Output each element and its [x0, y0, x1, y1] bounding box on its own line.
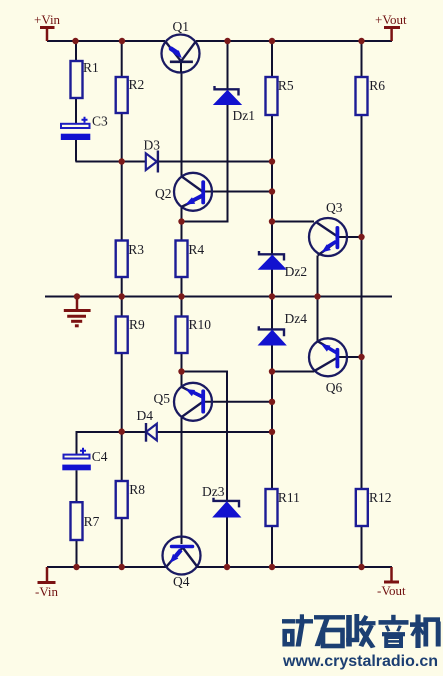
resistor R1: [71, 60, 99, 98]
wire Dz3 column: [182, 372, 228, 568]
svg-text:Q3: Q3: [326, 200, 343, 215]
svg-text:Q6: Q6: [326, 380, 343, 395]
node -Vout terminal: [377, 567, 406, 598]
wire Q6 base lead: [339, 356, 362, 358]
capacitor C3: [61, 114, 108, 141]
resistor R10: [176, 317, 212, 354]
svg-text:+Vin: +Vin: [34, 12, 61, 27]
diode D3: [144, 138, 161, 173]
zener Dz1: [214, 86, 255, 123]
resistor R2: [116, 77, 145, 113]
transistor Q4: [163, 537, 201, 590]
resistor R7: [71, 502, 100, 540]
node -Vin terminal: [35, 567, 59, 599]
svg-text:C3: C3: [92, 114, 108, 129]
ground: [64, 297, 91, 326]
svg-text:Q5: Q5: [154, 391, 171, 406]
wire top rail left: [47, 40, 165, 42]
wire bottom rail right: [197, 566, 392, 568]
resistor R8: [116, 481, 146, 518]
svg-text:Dz3: Dz3: [202, 484, 225, 499]
watermark chinese ji: [410, 615, 441, 649]
svg-text:R10: R10: [189, 317, 212, 332]
resistor R5: [266, 77, 294, 115]
transistor Q3: [309, 200, 347, 256]
transistor Q6: [309, 338, 347, 395]
svg-text:R5: R5: [278, 78, 294, 93]
svg-text:D3: D3: [144, 138, 161, 153]
wire Dz1 column: [182, 41, 228, 222]
wire col D segments: [181, 73, 183, 538]
svg-text:R2: R2: [129, 77, 145, 92]
svg-text:R9: R9: [129, 317, 145, 332]
svg-text:Dz2: Dz2: [285, 264, 308, 279]
watermark chinese shi: [314, 615, 345, 646]
svg-text:Dz1: Dz1: [233, 108, 256, 123]
wire col B segments: [75, 41, 77, 162]
svg-text:R11: R11: [278, 490, 300, 505]
zener Dz3: [202, 484, 240, 517]
node dots mid rail: [74, 293, 321, 299]
wire bottom rail left: [47, 566, 167, 568]
node +Vin terminal: [34, 12, 61, 41]
wire Q3 base lead: [339, 236, 362, 238]
wire D3 row: [76, 161, 273, 163]
watermark chinese shou: [346, 614, 375, 648]
watermark chinese yin: [379, 615, 409, 646]
svg-text:-Vout: -Vout: [377, 583, 406, 598]
svg-text:R3: R3: [128, 242, 144, 257]
svg-text:R8: R8: [129, 482, 145, 497]
wire top rail right: [196, 40, 392, 42]
node dots inner: [119, 158, 365, 435]
svg-text:Dz4: Dz4: [285, 311, 308, 326]
zener Dz2: [259, 251, 307, 279]
svg-text:R1: R1: [83, 60, 99, 75]
watermark url: [282, 653, 438, 670]
capacitor C4: [62, 448, 107, 471]
resistor R11: [266, 489, 300, 526]
transistor Q1: [162, 19, 200, 73]
svg-text:C4: C4: [92, 449, 108, 464]
wire col C segments: [121, 41, 123, 567]
resistor R4: [176, 241, 205, 278]
resistor R12: [356, 489, 392, 526]
wire mid rail: [45, 296, 392, 298]
resistor R9: [116, 317, 145, 354]
zener Dz4: [259, 311, 308, 345]
wire col F segments: [271, 41, 273, 567]
svg-text:R6: R6: [369, 78, 385, 93]
svg-text:R4: R4: [188, 242, 204, 257]
svg-text:www.crystalradio.cn: www.crystalradio.cn: [282, 653, 438, 670]
wire Q6 collector: [272, 371, 314, 373]
wire col H segments: [361, 41, 363, 567]
wire Q3 collector: [272, 221, 314, 223]
wire Q5 base row: [203, 401, 272, 403]
transistor Q2: [155, 173, 212, 211]
svg-text:Q2: Q2: [155, 186, 172, 201]
svg-text:Q1: Q1: [173, 19, 190, 34]
svg-text:D4: D4: [137, 408, 154, 423]
resistor R3: [116, 241, 145, 278]
node dots bottom rail: [73, 564, 364, 570]
svg-text:+Vout: +Vout: [375, 12, 407, 27]
wire Q3 Q6 emitter column: [317, 256, 319, 342]
diode D4: [137, 408, 157, 442]
svg-text:R12: R12: [369, 490, 392, 505]
svg-text:R7: R7: [84, 514, 100, 529]
resistor R6: [356, 77, 386, 115]
node dots top rail: [72, 38, 364, 44]
svg-text:Q4: Q4: [173, 574, 190, 589]
transistor Q5: [154, 383, 213, 421]
wire C4 to R7: [76, 470, 78, 567]
watermark chinese kuang: [282, 614, 313, 646]
svg-text:-Vin: -Vin: [35, 584, 59, 599]
wire D4 row: [77, 432, 273, 454]
wire Q2 base row: [205, 191, 272, 193]
node +Vout terminal: [375, 12, 407, 41]
